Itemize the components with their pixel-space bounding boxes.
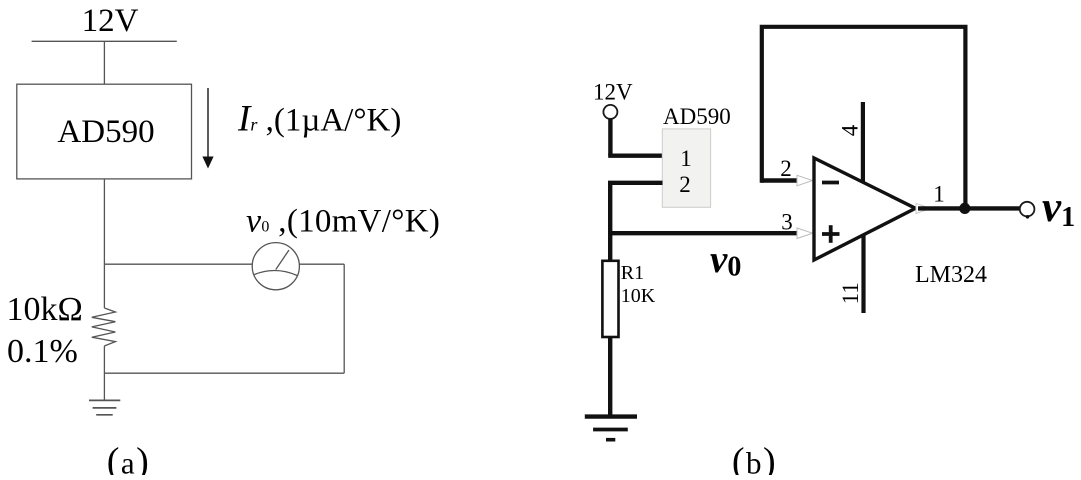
wire down to R1 bbox=[608, 183, 612, 262]
wire resistor to ground bbox=[103, 346, 105, 400]
wire node to meter left bbox=[104, 263, 252, 265]
svg-text:2: 2 bbox=[679, 172, 691, 197]
input arrow pin2 bbox=[797, 175, 813, 186]
svg-text:R1: R1 bbox=[621, 262, 644, 284]
pin 11 label bbox=[838, 282, 863, 304]
wire output bbox=[918, 206, 1021, 210]
svg-text:12V: 12V bbox=[82, 3, 139, 39]
wire to pin 1 bbox=[608, 153, 662, 157]
svg-text:10K: 10K bbox=[621, 285, 656, 307]
feedback wire loop bbox=[762, 27, 966, 209]
wire AD590 to node bbox=[103, 179, 105, 264]
svg-text:10kΩ: 10kΩ bbox=[7, 291, 83, 328]
pin 2 label opamp bbox=[780, 156, 792, 181]
pin 4 power line bbox=[861, 102, 865, 182]
svg-text:v0: v0 bbox=[710, 238, 741, 283]
terminal v1 bbox=[1020, 202, 1035, 219]
label 12V supply (b) bbox=[593, 80, 633, 105]
wire 12V rail to AD590 bbox=[103, 41, 105, 84]
label LM324 bbox=[915, 262, 987, 288]
wire node to resistor bbox=[103, 264, 105, 308]
wire 12V down bbox=[608, 119, 612, 156]
input arrow pin3 bbox=[797, 228, 813, 239]
minus input mark bbox=[822, 181, 839, 185]
svg-text:12V: 12V bbox=[593, 80, 633, 105]
svg-text:v0 ,(10mV/°K): v0 ,(10mV/°K) bbox=[246, 202, 440, 239]
label v0 (10mV/K) bbox=[246, 202, 440, 239]
meter v0 bbox=[252, 243, 299, 290]
svg-text:1: 1 bbox=[680, 146, 692, 171]
sensor AD590 box bbox=[17, 84, 192, 179]
wire bottom return bbox=[104, 372, 344, 374]
wire pin 2 out bbox=[608, 181, 663, 185]
pin 11 power line bbox=[861, 234, 865, 313]
output arrow apex bbox=[916, 204, 931, 214]
svg-text:AD590: AD590 bbox=[57, 114, 154, 150]
wire meter right bbox=[299, 263, 344, 265]
pin 2 label bbox=[679, 172, 691, 197]
svg-text:(b): (b) bbox=[732, 441, 777, 476]
svg-text:LM324: LM324 bbox=[915, 262, 987, 288]
caption (a) bbox=[107, 441, 151, 480]
caption (b) bbox=[732, 441, 777, 480]
wire meter return vertical bbox=[343, 264, 345, 373]
resistor 10k zigzag bbox=[92, 308, 116, 346]
pin 1 label opamp bbox=[933, 182, 945, 207]
label 0.1% bbox=[7, 333, 78, 370]
node junction dot bbox=[959, 203, 970, 214]
label v0 (b) bbox=[710, 238, 741, 283]
label 10kOhm bbox=[7, 291, 83, 328]
ground (b) bbox=[585, 417, 637, 440]
pin 1 label bbox=[680, 146, 692, 171]
wire pin 2 to op-amp bbox=[761, 178, 798, 182]
terminal 12V bbox=[603, 105, 617, 119]
svg-text:1: 1 bbox=[933, 182, 945, 207]
svg-text:Ir ,(1µA/°K): Ir ,(1µA/°K) bbox=[237, 98, 401, 139]
pin 4 label bbox=[838, 124, 863, 136]
plus input mark bbox=[822, 225, 840, 243]
label 12V supply bbox=[82, 3, 139, 39]
svg-text:AD590: AD590 bbox=[663, 104, 731, 129]
ground (a) bbox=[89, 400, 120, 414]
svg-text:3: 3 bbox=[781, 210, 793, 235]
resistor R1 bbox=[602, 261, 655, 337]
op-amp U1 triangle bbox=[814, 158, 916, 260]
wire R1 to ground bbox=[608, 337, 612, 416]
sensor AD590 (b) bbox=[662, 104, 730, 207]
node 3 label bbox=[781, 210, 793, 235]
svg-text:11: 11 bbox=[838, 282, 863, 304]
wire pin 3 input bbox=[610, 231, 799, 235]
wire 12V rail horizontal bbox=[32, 40, 177, 42]
label Ir (1uA/K) bbox=[237, 98, 401, 139]
label v1 bbox=[1042, 184, 1075, 233]
svg-text:(a): (a) bbox=[107, 441, 151, 476]
svg-text:0.1%: 0.1% bbox=[7, 333, 78, 370]
svg-text:4: 4 bbox=[838, 124, 863, 136]
svg-text:v1: v1 bbox=[1042, 184, 1075, 233]
current arrow Ir bbox=[202, 88, 213, 169]
svg-text:2: 2 bbox=[780, 156, 792, 181]
